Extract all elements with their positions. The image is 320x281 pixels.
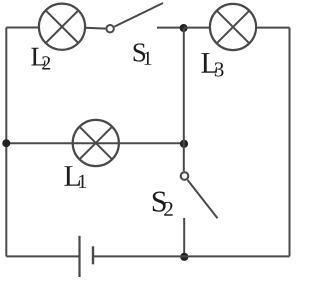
lamp L2: [39, 4, 85, 50]
switch S1 blade: [114, 3, 163, 27]
node C junction dot: [180, 140, 188, 148]
wire center vertical (node A to S2): [183, 28, 185, 171]
battery short plate: [92, 246, 94, 264]
label L2: [31, 48, 45, 66]
node A junction dot: [180, 24, 188, 32]
wire S1 contact stub to node A: [157, 27, 184, 29]
wire node A to L3: [184, 27, 211, 29]
label L1: [64, 166, 80, 186]
wire L3 to right corner: [256, 27, 290, 29]
wire middle horizontal: [6, 142, 184, 144]
wire left vertical: [5, 28, 7, 257]
switch S2 pivot: [181, 172, 189, 180]
wire top-left to L2: [6, 27, 40, 29]
lamp L1: [73, 120, 119, 166]
node D junction dot bottom: [180, 253, 188, 261]
label L3: [201, 53, 217, 73]
wire battery to bottom right: [93, 255, 290, 257]
switch S2 blade: [188, 180, 218, 218]
node B junction dot left: [2, 139, 10, 147]
lamp L3: [210, 4, 256, 50]
wire L2 to S1: [85, 27, 107, 30]
switch S1 pivot: [106, 25, 113, 32]
battery long plate: [78, 236, 80, 277]
wire S2 contact stub to bottom: [183, 218, 185, 256]
label S2: [153, 192, 166, 212]
wire bottom left to battery: [6, 255, 79, 257]
label S1: [134, 43, 146, 61]
wire right vertical: [289, 28, 291, 257]
